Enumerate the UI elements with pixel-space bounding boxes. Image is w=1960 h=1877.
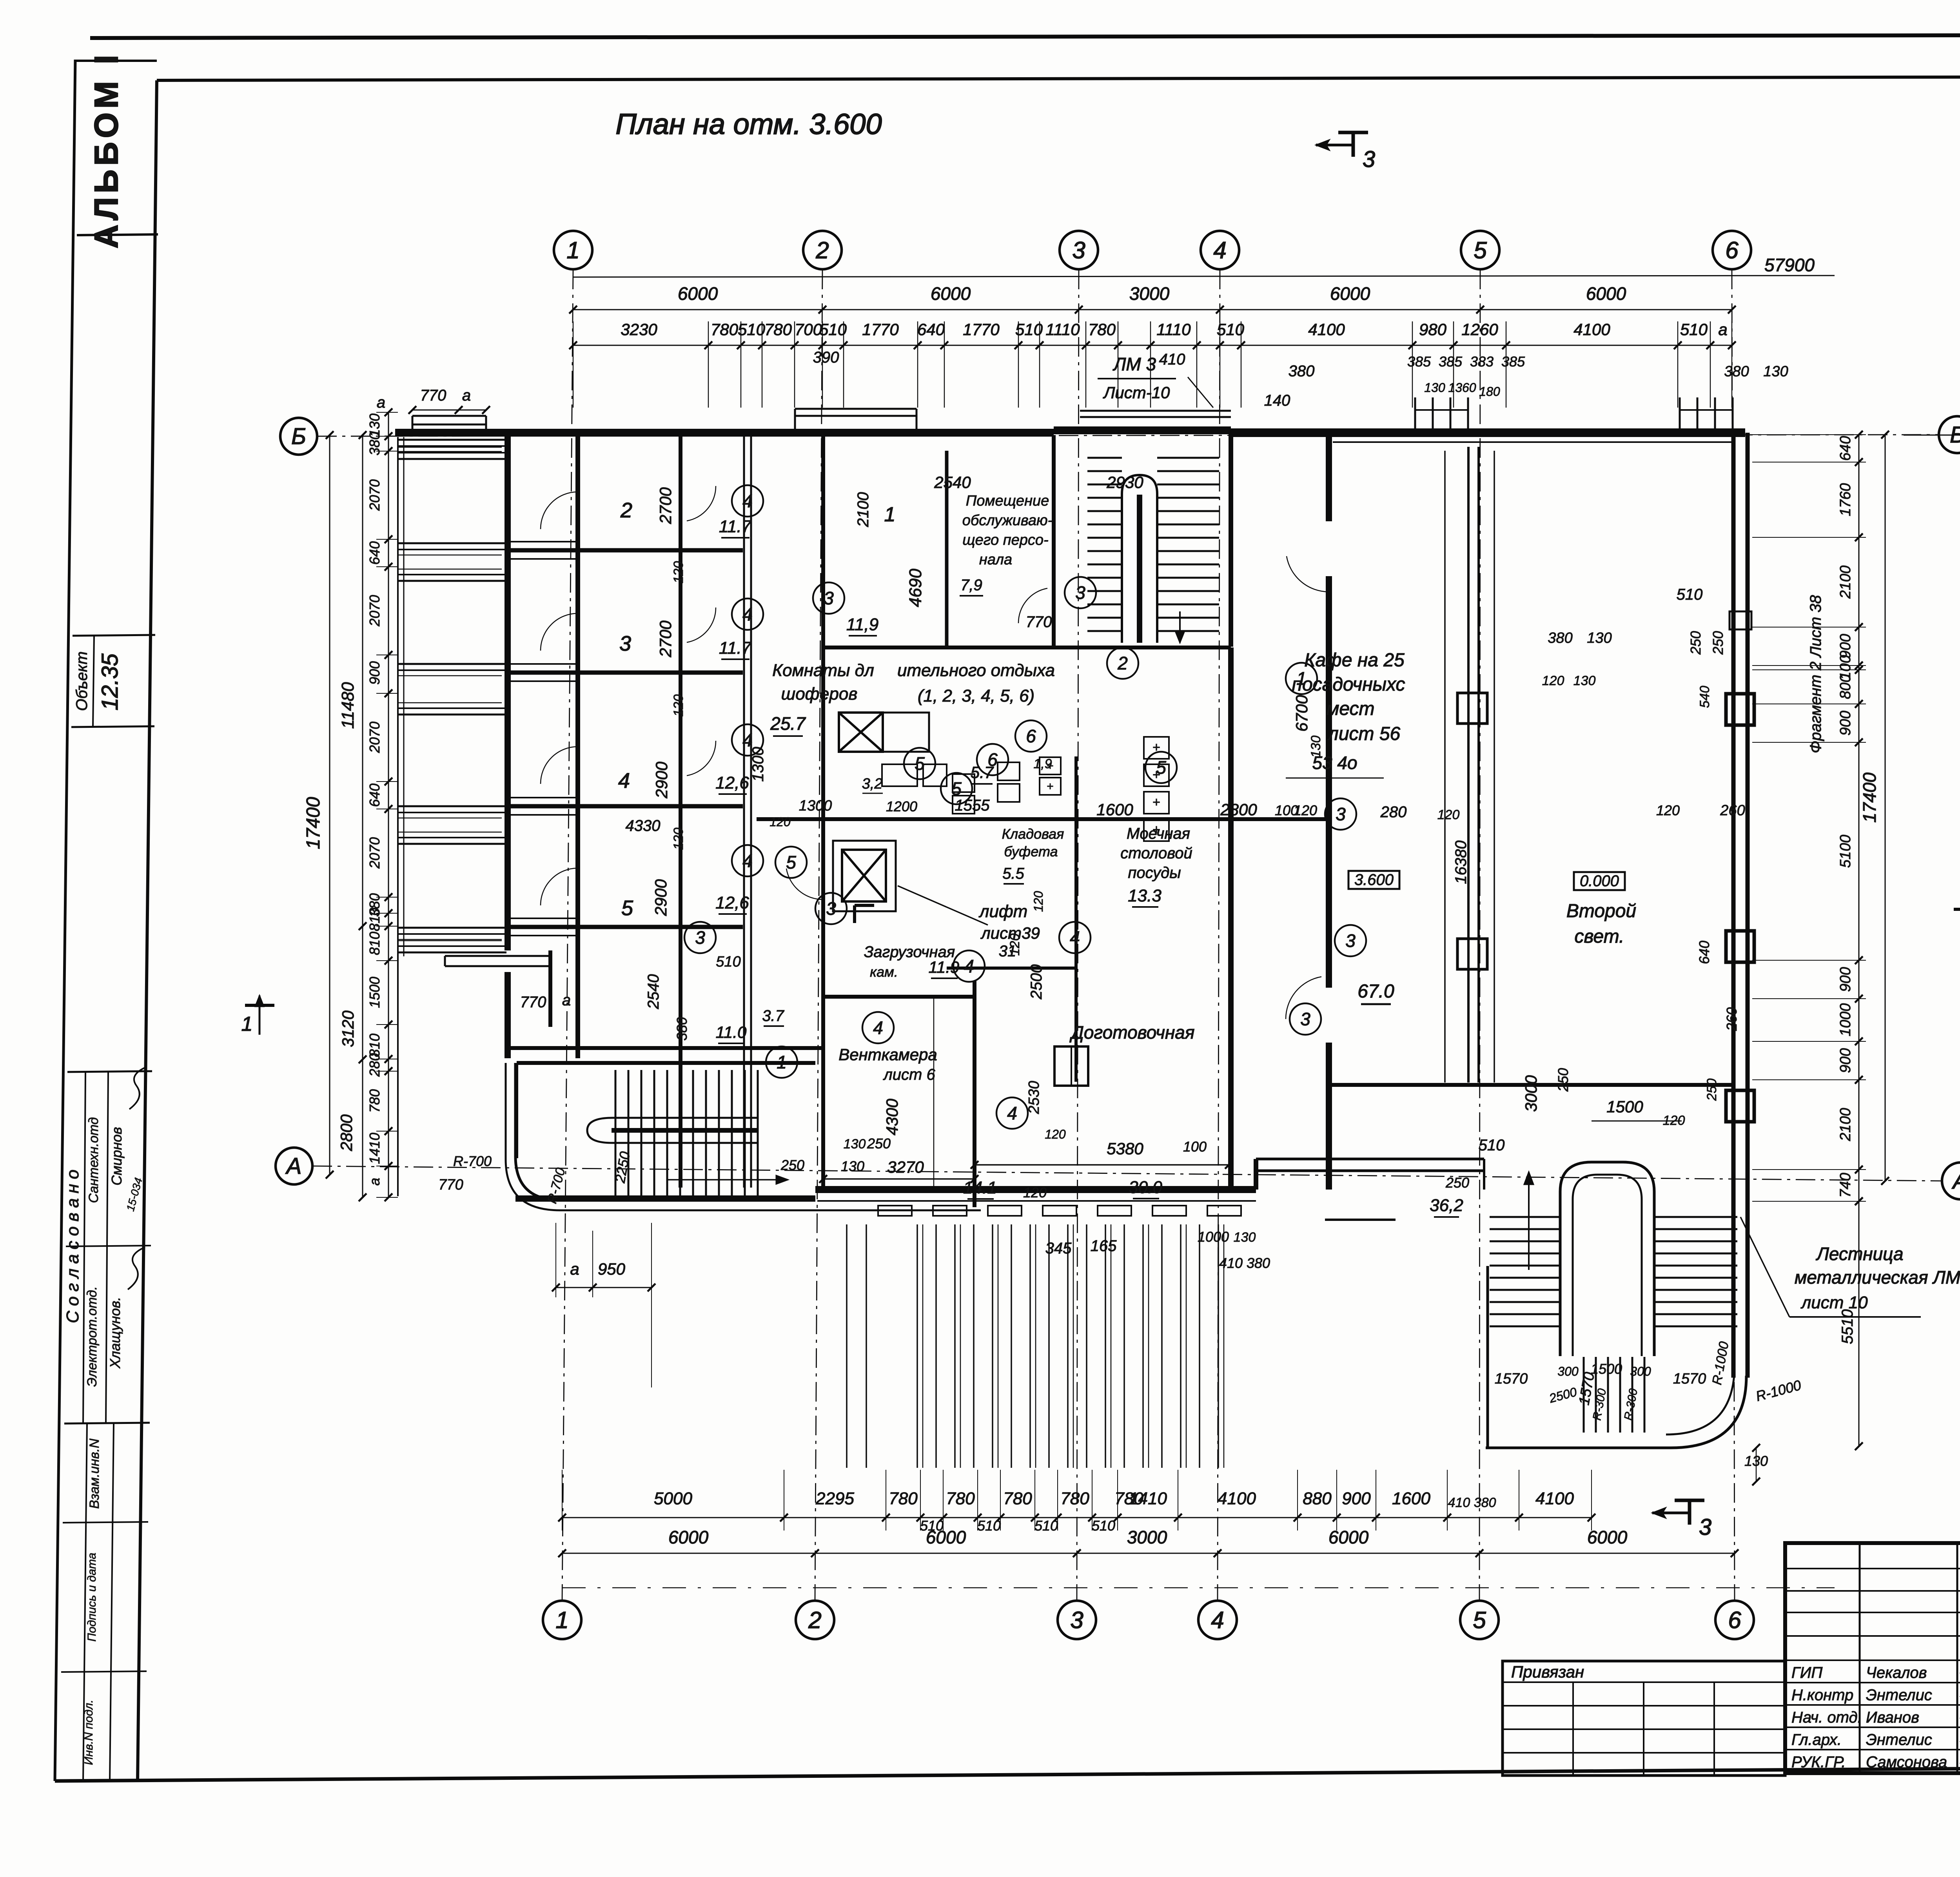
bottom-right stair treads left (1490, 1216, 1560, 1218)
svg-text:2530: 2530 (1026, 1081, 1042, 1115)
svg-text:280: 280 (367, 1053, 383, 1077)
svg-text:30.0: 30.0 (1129, 1178, 1162, 1197)
svg-text:2070: 2070 (367, 722, 383, 753)
svg-text:3270: 3270 (887, 1158, 924, 1176)
svg-text:770: 770 (1026, 613, 1052, 631)
svg-text:ительного отдыха: ительного отдыха (897, 661, 1055, 680)
misc circles with numbers (732, 485, 763, 517)
svg-text:2070: 2070 (367, 595, 383, 627)
svg-text:кам.: кам. (870, 964, 898, 980)
svg-text:лист 56: лист 56 (1327, 724, 1401, 744)
svg-text:810: 810 (367, 932, 383, 955)
svg-text:1570: 1570 (1673, 1371, 1706, 1387)
svg-text:1260: 1260 (1461, 320, 1498, 339)
tower axis circle B link (1904, 435, 1960, 436)
svg-text:130: 130 (1234, 1230, 1256, 1245)
svg-text:510: 510 (1217, 320, 1245, 339)
svg-text:900: 900 (1837, 634, 1854, 658)
svg-text:700: 700 (795, 320, 822, 339)
svg-text:2700: 2700 (656, 620, 675, 658)
svg-text:12,6: 12,6 (715, 893, 749, 912)
svg-text:540: 540 (1697, 686, 1712, 708)
svg-text:2: 2 (815, 237, 829, 263)
svg-text:5: 5 (621, 896, 633, 920)
svg-text:165: 165 (1091, 1237, 1117, 1255)
left strip block: Vzam inv (63, 1522, 148, 1523)
svg-text:130: 130 (1587, 630, 1612, 646)
svg-text:1200: 1200 (886, 798, 917, 814)
svg-text:1760: 1760 (1837, 483, 1854, 517)
svg-text:6000: 6000 (1586, 283, 1626, 304)
svg-text:А: А (285, 1153, 302, 1179)
svg-text:1555: 1555 (955, 797, 990, 814)
bottom-left stair arrow (666, 1179, 788, 1181)
svg-text:770: 770 (420, 387, 446, 404)
east wall small marks (1730, 611, 1751, 629)
svg-text:2100: 2100 (1837, 1108, 1854, 1142)
svg-text:180: 180 (1479, 384, 1500, 399)
svg-text:Энтелис: Энтелис (1866, 1687, 1932, 1704)
central stairwell axes3-4 (1052, 435, 1056, 647)
svg-text:1410: 1410 (1129, 1489, 1167, 1508)
svg-text:6000: 6000 (931, 283, 971, 304)
top dim chain 6000s (573, 309, 1732, 310)
svg-text:1600: 1600 (1096, 800, 1133, 819)
svg-text:3: 3 (824, 588, 834, 608)
svg-text:3: 3 (1363, 147, 1375, 172)
svg-text:640: 640 (367, 541, 383, 565)
svg-text:2900: 2900 (652, 879, 670, 916)
svg-text:4: 4 (618, 769, 630, 793)
svg-text:Энтелис: Энтелис (1866, 1731, 1932, 1748)
svg-text:1000: 1000 (1837, 1003, 1854, 1037)
svg-text:щего персо-: щего персо- (962, 532, 1048, 548)
svg-text:R-700: R-700 (453, 1153, 492, 1169)
svg-text:С о г л а с о в а н о: С о г л а с о в а н о (63, 1170, 82, 1323)
svg-text:140: 140 (1264, 392, 1290, 409)
building bottom wall center (815, 1186, 1256, 1193)
left dim line 17400 (329, 435, 330, 1175)
svg-text:5510: 5510 (1839, 1309, 1856, 1344)
svg-text:250: 250 (1445, 1175, 1469, 1191)
svg-text:3: 3 (826, 898, 836, 919)
building bottom wall left wing (515, 1195, 815, 1202)
svg-text:4300: 4300 (883, 1099, 901, 1135)
svg-text:640: 640 (1696, 941, 1712, 964)
svg-text:380: 380 (1289, 363, 1315, 380)
svg-text:4: 4 (873, 1017, 883, 1038)
svg-text:Подпись и дата: Подпись и дата (85, 1553, 98, 1642)
svg-text:Инв.N подл.: Инв.N подл. (82, 1700, 95, 1765)
svg-text:+: + (1047, 780, 1054, 793)
inner frame top line (157, 76, 1960, 80)
page outer border top (90, 34, 1960, 38)
svg-text:130: 130 (841, 1158, 864, 1174)
svg-text:380: 380 (1548, 630, 1572, 646)
svg-text:510: 510 (819, 320, 847, 339)
svg-text:2900: 2900 (652, 762, 671, 799)
svg-text:3000: 3000 (1129, 283, 1170, 304)
north wall left wing (395, 429, 795, 437)
svg-text:Б: Б (291, 424, 306, 449)
svg-text:280: 280 (1380, 803, 1407, 821)
interior corridor wall x1736 (679, 435, 682, 1188)
svg-text:120: 120 (1045, 1127, 1066, 1141)
svg-text:780: 780 (711, 320, 739, 339)
svg-text:4: 4 (742, 491, 753, 511)
svg-text:900: 900 (1342, 1489, 1371, 1508)
svg-text:нала: нала (979, 551, 1012, 568)
page outer border left (55, 60, 75, 1781)
svg-text:1,9: 1,9 (1033, 756, 1052, 771)
svg-text:57900: 57900 (1764, 255, 1815, 275)
svg-text:буфета: буфета (1004, 843, 1058, 860)
kitchen block top wall (757, 817, 1329, 821)
svg-text:250: 250 (1704, 1079, 1719, 1101)
svg-text:3: 3 (1070, 1607, 1083, 1633)
svg-text:13.3: 13.3 (1128, 886, 1161, 905)
svg-text:740: 740 (1837, 1173, 1854, 1197)
svg-text:14.1: 14.1 (963, 1178, 997, 1197)
svg-text:Фрагмент 2 Лист 38: Фрагмент 2 Лист 38 (1807, 595, 1824, 753)
lift shaft xbox (842, 850, 886, 901)
svg-text:6000: 6000 (1328, 1527, 1369, 1547)
svg-text:Объект: Объект (73, 651, 91, 711)
south portico axis4-5 (1256, 1158, 1484, 1161)
svg-text:385: 385 (1407, 354, 1431, 370)
svg-text:1570: 1570 (1495, 1371, 1528, 1387)
axis circle B right (1939, 416, 1960, 453)
svg-text:300: 300 (1630, 1364, 1651, 1378)
G mark near lift (855, 905, 874, 923)
svg-text:Самсонова: Самсонова (1866, 1754, 1947, 1771)
svg-text:6000: 6000 (678, 283, 718, 304)
svg-text:1770: 1770 (963, 320, 1000, 339)
south wall of right stairs area (1486, 1447, 1671, 1449)
svg-text:2100: 2100 (855, 492, 872, 528)
title block column lines left part (1859, 1543, 1861, 1773)
svg-text:+: + (1152, 795, 1160, 810)
bottom-right stair U rail (1560, 1162, 1654, 1356)
svg-text:Гл.арх.: Гл.арх. (1791, 1731, 1842, 1748)
svg-text:900: 900 (367, 661, 383, 685)
serving hatch in dogotovochnaya (1054, 1046, 1088, 1086)
svg-text:Сантехн.отд: Сантехн.отд (86, 1117, 101, 1203)
svg-text:120: 120 (671, 695, 686, 717)
svg-text:5: 5 (1474, 237, 1487, 263)
rooms west partition wall (575, 435, 580, 1058)
stair arrow center (1179, 611, 1181, 643)
bottom-right stair treads bottom (1583, 1357, 1585, 1433)
svg-text:лист 6: лист 6 (883, 1066, 935, 1083)
svg-text:свет.: свет. (1575, 926, 1624, 947)
west side jut below room5 (445, 955, 550, 957)
svg-text:6700: 6700 (1292, 695, 1311, 732)
svg-text:4: 4 (742, 604, 753, 624)
svg-text:1600: 1600 (1392, 1489, 1430, 1508)
svg-text:6: 6 (1728, 1607, 1741, 1633)
svg-text:а: а (367, 1178, 383, 1186)
svg-text:6000: 6000 (926, 1527, 966, 1547)
svg-text:а: а (1718, 320, 1727, 339)
svg-text:2: 2 (808, 1607, 821, 1633)
svg-text:а: а (462, 387, 471, 404)
svg-text:900: 900 (1837, 1048, 1854, 1073)
svg-text:6000: 6000 (1587, 1527, 1628, 1547)
interior wall x1907 double (743, 435, 745, 1188)
svg-text:120: 120 (1542, 673, 1564, 688)
svg-text:25.7: 25.7 (770, 713, 806, 734)
svg-text:Лист-10: Лист-10 (1103, 383, 1170, 402)
svg-text:6: 6 (1725, 237, 1739, 263)
bottom-right stair west wall (1486, 1266, 1489, 1448)
right dim extension horizontals (1752, 434, 1866, 435)
svg-text:Помещение: Помещение (966, 493, 1049, 509)
small kitchen fixtures extra (1040, 757, 1061, 774)
svg-text:810: 810 (367, 908, 383, 931)
room divider walls left wing (508, 548, 743, 553)
north porch axis2 (795, 408, 916, 410)
axis line A horizontal (312, 1166, 1942, 1181)
svg-text:130: 130 (844, 1137, 866, 1152)
svg-text:Венткамера: Венткамера (838, 1045, 937, 1064)
svg-text:Кладовая: Кладовая (1002, 826, 1064, 842)
svg-text:3: 3 (695, 927, 705, 948)
svg-text:1500: 1500 (1591, 1361, 1622, 1377)
svg-text:380: 380 (367, 432, 383, 455)
svg-text:4: 4 (1211, 1607, 1224, 1633)
svg-text:950: 950 (598, 1260, 626, 1278)
svg-text:1770: 1770 (862, 320, 899, 339)
entrance steps bottom-left piece (846, 1224, 848, 1468)
second light hall divider wall (1444, 451, 1446, 1083)
svg-text:мест: мест (1326, 698, 1374, 719)
room divider left wing bottom (508, 1046, 823, 1050)
right dim 17400 (1885, 435, 1886, 1181)
svg-text:3120: 3120 (339, 1010, 357, 1047)
svg-text:250: 250 (1555, 1068, 1571, 1092)
svg-text:780: 780 (1088, 320, 1116, 339)
svg-text:5100: 5100 (1837, 835, 1854, 868)
svg-text:2540: 2540 (934, 473, 971, 491)
axis line B horizontal (317, 435, 1939, 436)
grid axis circles top 1-6 (554, 231, 592, 269)
svg-text:2700: 2700 (656, 487, 675, 524)
svg-text:11.0: 11.0 (716, 1023, 747, 1041)
svg-text:510: 510 (1479, 1137, 1505, 1154)
svg-text:Доготовочная: Доготовочная (1069, 1022, 1195, 1043)
svg-text:3: 3 (1336, 804, 1346, 824)
svg-text:16380: 16380 (1452, 840, 1470, 884)
svg-text:Смирнов: Смирнов (109, 1127, 125, 1185)
svg-text:Н.контр: Н.контр (1791, 1687, 1853, 1704)
axis circle A right (1942, 1162, 1960, 1199)
loggia divider double lines (508, 541, 577, 542)
svg-text:11480: 11480 (338, 682, 358, 729)
svg-text:130: 130 (1424, 381, 1445, 395)
svg-text:2500: 2500 (1028, 965, 1045, 1000)
title block row lines left part (1785, 1568, 1960, 1569)
inner frame left line (138, 80, 157, 1781)
svg-text:770: 770 (438, 1177, 463, 1193)
svg-text:1: 1 (241, 1013, 253, 1036)
svg-text:36,2: 36,2 (1430, 1196, 1463, 1215)
ventkamera north wall (823, 995, 975, 999)
bottom dim extension verticals (562, 1470, 563, 1531)
bottom dash axis line (562, 1587, 1835, 1589)
svg-text:3: 3 (1345, 930, 1356, 951)
axis circle A left (276, 1148, 312, 1184)
svg-text:385: 385 (1501, 354, 1525, 370)
svg-text:3.7: 3.7 (762, 1007, 784, 1025)
svg-text:2800: 2800 (337, 1114, 356, 1152)
svg-text:300: 300 (1557, 1364, 1579, 1378)
bottom-right stair east wall (1740, 1377, 1741, 1378)
south wall piece below portico (1325, 1219, 1396, 1221)
dim line 4300 extension (933, 997, 935, 1191)
svg-text:6000: 6000 (668, 1527, 709, 1547)
svg-text:640: 640 (1837, 436, 1854, 461)
svg-text:800: 800 (1837, 674, 1854, 699)
svg-text:3000: 3000 (1127, 1527, 1167, 1547)
title block outer (1785, 1543, 1960, 1773)
svg-text:380: 380 (674, 1017, 690, 1041)
svg-text:2800: 2800 (1220, 800, 1257, 819)
bottom-left stair handrail (587, 1118, 759, 1143)
svg-text:4: 4 (742, 851, 753, 871)
north wall middle (795, 429, 1054, 437)
svg-text:780: 780 (946, 1489, 975, 1508)
svg-text:А: А (1952, 1168, 1960, 1194)
grid axis circles bottom 1-6 (543, 1601, 581, 1639)
svg-text:120: 120 (1437, 807, 1460, 822)
svg-text:2070: 2070 (367, 479, 383, 511)
section mark 3 bottom (1688, 1500, 1691, 1525)
svg-text:6000: 6000 (1330, 283, 1370, 304)
svg-text:Электрот.отд.: Электрот.отд. (85, 1286, 100, 1387)
svg-text:2540: 2540 (645, 974, 662, 1010)
svg-text:2070: 2070 (367, 837, 383, 869)
svg-text:6: 6 (987, 749, 998, 770)
svg-text:7,9: 7,9 (960, 577, 982, 594)
svg-text:510: 510 (1680, 320, 1708, 339)
svg-text:385: 385 (1439, 354, 1463, 370)
left strip signature scribbles (129, 1067, 147, 1109)
svg-text:120: 120 (1656, 802, 1680, 818)
svg-text:столовой: столовой (1120, 845, 1192, 862)
svg-text:4: 4 (964, 956, 974, 976)
left strip cell: Object 12.35 (73, 635, 155, 636)
svg-text:1110: 1110 (1045, 320, 1080, 339)
svg-text:780: 780 (889, 1489, 918, 1508)
svg-text:390: 390 (813, 349, 839, 366)
privyazan table (1503, 1661, 1785, 1775)
svg-text:6: 6 (1026, 726, 1036, 746)
door gaps kafe wall white (1324, 521, 1334, 576)
svg-text:780: 780 (367, 1089, 383, 1113)
left dim line 11480 3120 2800 (362, 435, 363, 1197)
svg-text:а: а (377, 394, 385, 411)
svg-text:510: 510 (738, 320, 766, 339)
west wall window bays (398, 439, 506, 441)
svg-text:1: 1 (555, 1607, 568, 1633)
svg-text:11.7: 11.7 (719, 517, 752, 536)
svg-text:5380: 5380 (1107, 1139, 1143, 1158)
svg-text:4100: 4100 (1218, 1489, 1256, 1508)
bottom-right stair treads right (1654, 1216, 1737, 1218)
svg-text:640: 640 (917, 320, 945, 339)
svg-text:5: 5 (1473, 1607, 1486, 1633)
svg-text:АЛЬБОМ I: АЛЬБОМ I (88, 51, 125, 248)
svg-text:металлическая ЛМ-1: металлическая ЛМ-1 (1795, 1267, 1960, 1288)
svg-text:250: 250 (1710, 631, 1726, 655)
svg-text:шоферов: шоферов (781, 684, 858, 704)
section mark 1 left (245, 1004, 274, 1007)
svg-text:ГИП: ГИП (1791, 1664, 1823, 1681)
svg-text:Лестница: Лестница (1815, 1244, 1903, 1264)
north wall axis4 to6 (1231, 428, 1745, 437)
svg-text:640: 640 (367, 783, 383, 807)
svg-text:510: 510 (716, 954, 740, 970)
svg-text:250: 250 (1688, 631, 1704, 655)
svg-text:4100: 4100 (1535, 1489, 1574, 1508)
svg-text:1: 1 (566, 237, 579, 263)
top dim line level0 with 57900 (573, 276, 1835, 277)
svg-text:3000: 3000 (1522, 1075, 1540, 1112)
svg-text:а: а (562, 992, 571, 1009)
svg-text:лист 10: лист 10 (1800, 1293, 1868, 1312)
bottom-right stair arrow up (1528, 1172, 1530, 1270)
svg-text:120: 120 (671, 561, 686, 584)
level mark 0.000 (1574, 872, 1625, 890)
svg-text:380: 380 (1724, 363, 1749, 380)
svg-text:4: 4 (742, 730, 753, 750)
svg-text:2295: 2295 (815, 1489, 854, 1508)
wall x2100 corridor (821, 435, 825, 1188)
south-east rounded corner R1000 (1671, 1376, 1746, 1448)
svg-text:3: 3 (1300, 1009, 1310, 1029)
svg-text:1360: 1360 (1448, 381, 1476, 395)
east wall (1731, 433, 1736, 1378)
svg-text:3.600: 3.600 (1354, 871, 1394, 889)
svg-text:4330: 4330 (626, 817, 661, 834)
svg-text:260: 260 (1720, 802, 1745, 819)
svg-text:Чекалов: Чекалов (1866, 1664, 1927, 1681)
svg-text:120: 120 (769, 815, 791, 829)
svg-text:3230: 3230 (621, 320, 657, 339)
svg-text:900: 900 (1837, 711, 1854, 735)
svg-text:260: 260 (1724, 1007, 1740, 1031)
svg-text:17400: 17400 (303, 797, 324, 849)
bottom wall doors teeth (878, 1206, 912, 1216)
svg-text:67.0: 67.0 (1357, 981, 1394, 1002)
svg-text:4100: 4100 (1573, 320, 1610, 339)
svg-text:1410: 1410 (367, 1133, 383, 1164)
svg-text:4690: 4690 (906, 569, 925, 607)
svg-text:5: 5 (786, 852, 796, 872)
svg-text:120: 120 (1007, 934, 1022, 956)
svg-text:120: 120 (1023, 1184, 1047, 1201)
svg-text:3: 3 (619, 632, 631, 655)
left small dim chain (388, 412, 389, 1197)
wall x3390 kafe west (1326, 435, 1332, 1190)
bottom dim chain 6000s (562, 1553, 1735, 1554)
room1 walls (945, 451, 949, 647)
svg-text:4: 4 (1213, 237, 1226, 263)
bottom-left stair walls (515, 1063, 518, 1158)
svg-text:посуды: посуды (1128, 864, 1181, 881)
svg-text:510: 510 (1092, 1518, 1115, 1534)
